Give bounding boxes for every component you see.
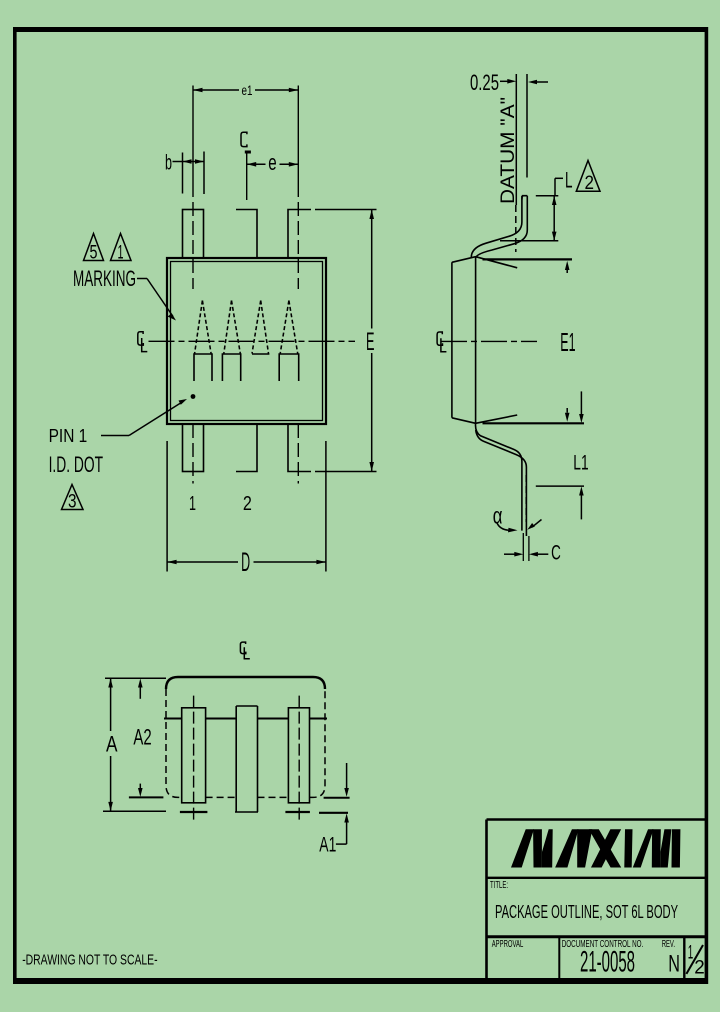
svg-text:I.D. DOT: I.D. DOT: [49, 452, 103, 477]
lead 1 centerline: [149, 86, 356, 484]
front lead 2: [235, 706, 258, 812]
body bottom extension line: [483, 422, 585, 424]
MAXIM logo: [512, 830, 680, 867]
svg-text:b: b: [165, 152, 172, 175]
bottom lead 2: [236, 424, 257, 472]
svg-text:-DRAWING NOT TO SCALE-: -DRAWING NOT TO SCALE-: [22, 953, 158, 969]
svg-text:E: E: [366, 328, 375, 356]
svg-text:A1: A1: [319, 834, 336, 857]
svg-text:3: 3: [68, 492, 77, 513]
dimension E: [315, 210, 377, 472]
svg-text:1: 1: [118, 243, 124, 264]
svg-text:1: 1: [688, 942, 694, 963]
dimension e1: [193, 89, 298, 91]
front body outline: [166, 677, 325, 689]
dimension e: [247, 163, 299, 165]
svg-text:2: 2: [585, 173, 595, 194]
centerline symbol top: [240, 642, 249, 659]
body top tick arrow: [565, 261, 570, 270]
svg-text:21-0058: 21-0058: [580, 946, 635, 979]
svg-text:E1: E1: [560, 327, 575, 357]
svg-text:L: L: [565, 168, 573, 193]
top lead 1: [183, 210, 204, 259]
svg-text:TITLE:: TITLE:: [490, 879, 508, 891]
top lead 3: [288, 210, 311, 259]
body top extension line: [483, 258, 573, 260]
side centerline: [441, 340, 537, 342]
datum A line: [515, 74, 517, 205]
lead edge extension lines: [523, 475, 529, 561]
body bottom tick arrow: [565, 413, 570, 422]
MARKING leader: [137, 279, 173, 317]
A1 dimension: [319, 798, 350, 813]
bottom lead 1: [183, 424, 204, 472]
svg-text:REV.: REV.: [662, 939, 675, 950]
svg-text:A2: A2: [133, 725, 151, 750]
bottom lead S-curve: [476, 423, 527, 536]
svg-text:0.25: 0.25: [470, 70, 499, 95]
note triangle 2: [576, 161, 600, 192]
top lead S-curve: [471, 196, 527, 258]
bottom lead 3: [288, 424, 311, 472]
centerline symbol side: [437, 332, 446, 352]
top lead 2: [236, 210, 257, 259]
horizontal centerline: [149, 340, 356, 342]
svg-text:PIN 1: PIN 1: [49, 426, 88, 446]
svg-text:MARKING: MARKING: [73, 266, 136, 291]
svg-text:N: N: [668, 951, 680, 978]
svg-text:5: 5: [90, 243, 98, 264]
package body outer: [167, 258, 326, 424]
svg-text:PACKAGE OUTLINE, SOT 6L BODY: PACKAGE OUTLINE, SOT 6L BODY: [495, 901, 678, 922]
svg-text:C: C: [551, 542, 561, 565]
parting line: [164, 718, 327, 720]
centerline symbol above lead2: [241, 132, 251, 152]
pin1 id dot: [191, 394, 196, 399]
svg-text:L1: L1: [573, 451, 588, 474]
svg-text:DATUM "A": DATUM "A": [497, 97, 519, 204]
svg-text:A: A: [106, 732, 118, 757]
svg-text:APPROVAL: APPROVAL: [492, 939, 524, 950]
marking triangles (dashed): [195, 301, 298, 354]
svg-text:e1: e1: [242, 82, 253, 98]
svg-text:2: 2: [694, 958, 705, 979]
note triangles 5 and 1: [84, 234, 132, 261]
side body: [452, 256, 517, 423]
svg-text:e: e: [268, 150, 276, 175]
svg-text:1: 1: [189, 493, 196, 515]
note triangle 3: [62, 485, 84, 510]
dimension b: [173, 152, 205, 195]
lead 2 centerline stub: [246, 153, 248, 200]
A dimension: [103, 678, 166, 811]
title block grid: [487, 820, 708, 981]
PIN1 leader: [101, 402, 183, 436]
svg-text:D: D: [241, 547, 250, 577]
lead 3 centerline: [297, 86, 299, 184]
svg-text:2: 2: [243, 493, 252, 515]
centerline symbol left: [138, 332, 148, 352]
front lead 3: [285, 696, 310, 820]
marking goalposts (solid): [194, 354, 299, 381]
front lead 1: [180, 696, 208, 820]
dimension D: [167, 441, 326, 572]
package body inner: [171, 262, 323, 421]
